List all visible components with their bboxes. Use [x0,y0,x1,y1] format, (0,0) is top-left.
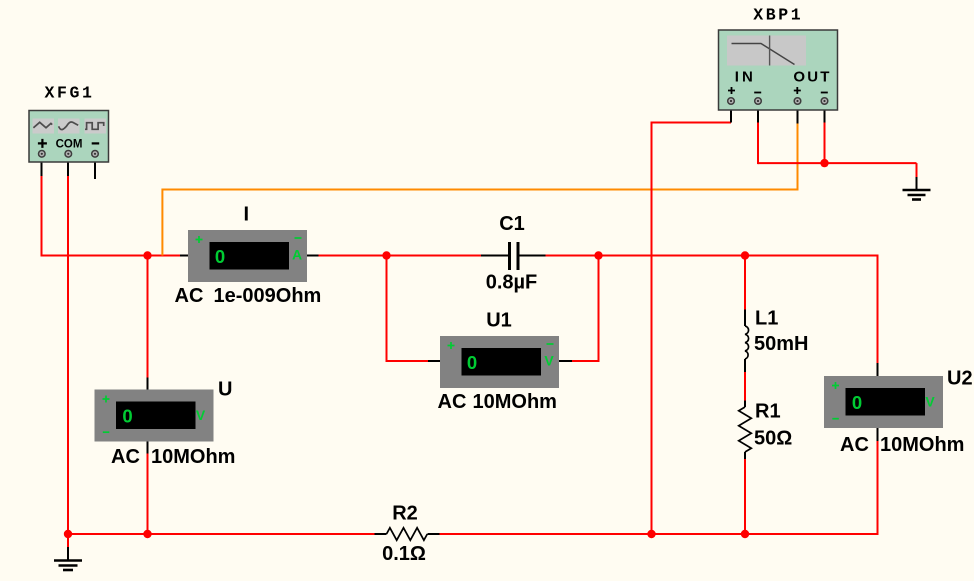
wire rail to L1 [744,255,746,310]
svg-text:U: U [218,379,232,401]
svg-text:IN: IN [735,69,756,86]
svg-text:C1: C1 [499,213,525,235]
svg-text:50mH: 50mH [754,333,808,355]
svg-text:0.8µF: 0.8µF [486,272,538,294]
wire IN+ horizontal [651,122,732,124]
svg-text:1e-009Ohm: 1e-009Ohm [214,285,322,307]
wire XFG1 COM pin stub [67,162,69,177]
wire C1 left pin stub [481,255,508,257]
svg-text:U1: U1 [486,310,512,332]
svg-text:0: 0 [122,406,132,427]
svg-text:0.1Ω: 0.1Ω [382,543,426,565]
wire R1 to bottom rail [744,459,746,534]
svg-text:50Ω: 50Ω [754,428,792,450]
wire XFG1 COM down to bottom rail [67,176,69,534]
svg-text:AC: AC [840,434,869,456]
wire orange OUT+ to rail [162,124,797,256]
svg-text:AC: AC [111,446,140,468]
wire XFG1 plus pin stub [41,162,43,177]
wire right ground drop [916,163,918,177]
svg-text:AC: AC [175,285,204,307]
svg-text:XBP1: XBP1 [753,6,803,25]
svg-text:L1: L1 [755,308,778,330]
wire left ground stub [67,534,69,547]
junction node bottom R1 [741,530,749,538]
voltmeter U [95,390,214,442]
wire XBP1 IN- pin stub [757,104,759,123]
svg-text:A: A [292,247,302,263]
wire U2 top pin stub [877,363,879,377]
wire right ground stem [916,177,918,190]
wire top rail middle segment [319,255,482,257]
svg-text:OUT: OUT [793,69,831,86]
wire bottom rail left segment [68,533,375,535]
junction node rail-U [143,251,151,259]
wire U2 bottom to bottom rail [877,441,879,535]
wire R1 bottom pin stub [744,452,746,459]
svg-text:10MOhm: 10MOhm [473,391,557,413]
resistor R2 [387,528,428,540]
bode plotter XBP1 [719,30,838,110]
wire R2 left pin stub [375,533,387,535]
svg-text:U2: U2 [947,368,973,390]
voltmeter U1 [440,336,559,388]
wire R2 right pin stub [428,533,440,535]
voltmeter U2 [824,376,943,428]
wire ammeter I right pin stub [307,255,319,257]
wire U1 left pin stub [428,360,441,362]
wire L1 bottom pin stub [744,359,746,372]
wire U top pin stub [147,378,149,391]
svg-text:0: 0 [215,246,225,267]
junction node rail-U1 left [382,251,390,259]
inductor L1 [745,326,749,359]
wire XBP1 OUT+ pin stub [797,104,799,124]
svg-text:V: V [925,394,935,410]
junction node rail-L1 [741,251,749,259]
resistor R1 [739,407,752,452]
svg-text:I: I [244,204,250,226]
wire L1 top pin stub [744,310,746,327]
svg-text:COM: COM [56,139,83,151]
svg-text:10MOhm: 10MOhm [880,434,964,456]
wire left ground stem [67,547,69,560]
ground (bottom left) [54,561,82,571]
svg-text:AC: AC [438,391,467,413]
wire IN- to right ground [758,162,917,164]
junction node OUT- [820,159,828,167]
wire XBP1 OUT- pin stub [824,104,826,123]
wire U2 bottom pin stub [877,428,879,442]
svg-text:XFG1: XFG1 [44,84,94,103]
ground (right, XBP1) [903,190,931,200]
junction node bottom IN+ [647,530,655,538]
wire XBP1 IN+ pin stub [730,104,732,123]
svg-text:0: 0 [852,392,862,413]
wire U bottom to bottom rail [147,454,149,535]
junction node rail-U1 right [594,251,602,259]
wire top rail right segment [546,255,878,257]
wire XFG1 plus to rail corner [41,176,43,256]
wire IN- down [757,123,759,165]
svg-text:10MOhm: 10MOhm [151,446,235,468]
wire U1 right drop from rail [572,255,599,362]
function generator XFG1 [29,111,109,163]
ammeter I [188,230,307,282]
wire C1 right pin stub [520,255,546,257]
svg-text:R1: R1 [755,401,781,423]
wire U1 right pin stub [559,360,573,362]
wire top rail left segment [41,255,181,257]
wire node rail to voltmeter U [147,256,149,378]
wire XFG1 minus pin stub [94,162,96,180]
wire U bottom pin stub [147,441,149,454]
capacitor C1 [510,242,519,270]
wire bottom rail right segment [440,533,878,535]
wire ammeter I left pin stub [180,255,189,257]
wire right drop to U2 [877,255,879,364]
wire IN+ vertical to bottom rail [651,123,653,535]
wire L1 to R1 [744,372,746,401]
svg-text:R2: R2 [392,503,418,525]
wire R1 top pin stub [744,401,746,408]
junction node bottom-left ground [64,530,72,538]
svg-text:V: V [196,407,206,423]
junction node bottom U [143,530,151,538]
wire U1 left drop from rail [387,255,429,362]
wire OUT- down to node [824,123,826,164]
svg-text:V: V [544,353,554,369]
svg-text:0: 0 [467,352,477,373]
